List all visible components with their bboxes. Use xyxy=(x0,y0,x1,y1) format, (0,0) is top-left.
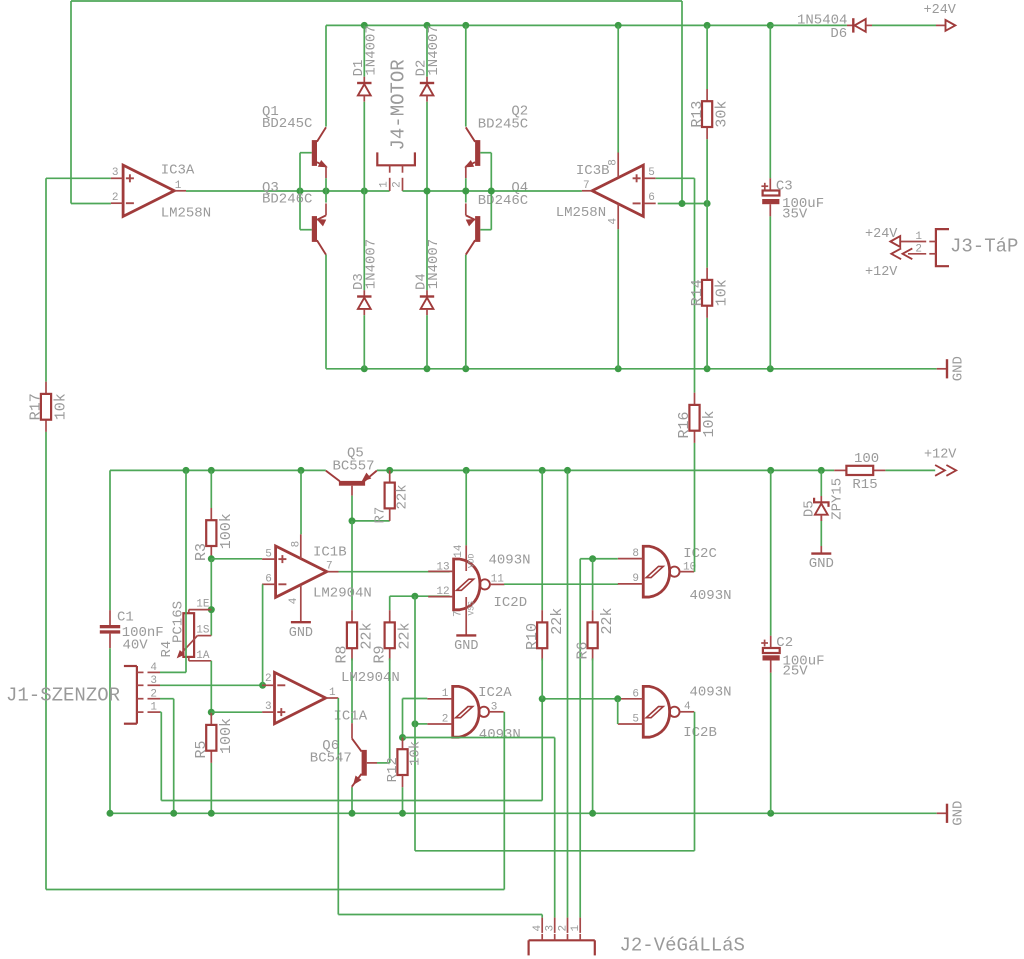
svg-text:1N4007: 1N4007 xyxy=(363,25,379,75)
svg-text:14: 14 xyxy=(453,544,465,558)
svg-text:1: 1 xyxy=(442,688,449,700)
resistor R10 22k xyxy=(541,470,543,610)
svg-text:4: 4 xyxy=(288,597,300,604)
svg-text:GND: GND xyxy=(454,639,478,654)
wire IC1B pin6 down to IC1A pin2 xyxy=(262,584,264,685)
svg-text:11: 11 xyxy=(491,574,505,586)
resistor R15 100 xyxy=(834,469,846,471)
wire R5 bottom to GND line xyxy=(210,763,212,813)
wire R6 top xyxy=(592,559,594,610)
diode D4 1N4007 xyxy=(426,290,428,296)
svg-text:7: 7 xyxy=(326,561,333,573)
svg-text:40V: 40V xyxy=(123,638,149,654)
svg-text:5: 5 xyxy=(265,548,272,560)
capacitor C2 100uF 25V xyxy=(770,470,772,635)
svg-text:22k: 22k xyxy=(396,622,413,649)
svg-text:J2-VéGáLLáS: J2-VéGáLLáS xyxy=(620,935,745,957)
svg-text:IC2A: IC2A xyxy=(478,685,512,701)
supply +12V arrow right xyxy=(946,465,956,476)
svg-text:3: 3 xyxy=(112,167,119,179)
wire D1 to output node to D3 xyxy=(363,102,365,291)
op-amp IC3B xyxy=(592,165,643,216)
nand gate IC2B 4093N xyxy=(643,686,669,737)
svg-text:4: 4 xyxy=(684,701,691,713)
transistor Q2 BD245C xyxy=(475,140,480,166)
svg-text:+12V: +12V xyxy=(865,265,898,280)
svg-text:6: 6 xyxy=(648,192,655,204)
connector J2-VeGaLLaS xyxy=(529,939,595,941)
svg-text:C1: C1 xyxy=(117,610,134,626)
resistor R5 100k xyxy=(210,713,212,725)
wire Q5 base node to R7 bottom xyxy=(352,520,390,522)
svg-text:5: 5 xyxy=(632,714,639,726)
wire IC2B output down xyxy=(694,712,696,851)
wire IC2D pin14 to rail xyxy=(465,470,467,545)
svg-text:PC16S: PC16S xyxy=(171,601,187,643)
resistor R16 10k xyxy=(694,393,696,405)
svg-text:10k: 10k xyxy=(701,410,718,437)
svg-text:10k: 10k xyxy=(53,393,70,420)
resistor R12 10k xyxy=(402,738,404,750)
wire Q1/Q3 base tie xyxy=(300,152,312,154)
supply +24V arrow top right xyxy=(936,24,946,26)
svg-text:IC2B: IC2B xyxy=(683,725,717,741)
wire IC2C output to R16 chain xyxy=(694,443,696,572)
svg-text:C3: C3 xyxy=(776,179,793,195)
connector J4-MOTOR xyxy=(377,152,415,165)
wire +12V rail right segment xyxy=(377,469,834,471)
nand gate IC2D 4093N xyxy=(454,559,480,610)
svg-text:4093N: 4093N xyxy=(479,727,521,743)
wire J1 pin1 to R10 net xyxy=(160,711,161,713)
svg-text:10k: 10k xyxy=(408,741,424,766)
svg-text:BD246C: BD246C xyxy=(262,192,312,208)
svg-text:J4-MOTOR: J4-MOTOR xyxy=(387,59,409,150)
wire J1 pin3 to IC1A pin2 xyxy=(160,684,262,686)
wire R12 bottom to GND xyxy=(402,787,404,813)
svg-text:GND: GND xyxy=(289,626,313,641)
svg-text:BD245C: BD245C xyxy=(262,116,312,132)
svg-text:100k: 100k xyxy=(218,718,235,754)
svg-text:R5: R5 xyxy=(193,740,210,758)
svg-text:GND: GND xyxy=(950,356,966,381)
diode D3 1N4007 xyxy=(363,290,365,296)
svg-text:BD245C: BD245C xyxy=(478,116,528,132)
svg-text:J1-SZENZOR: J1-SZENZOR xyxy=(6,684,120,706)
trimmer R4 PC16S xyxy=(183,613,194,657)
resistor R9 22k xyxy=(389,596,391,610)
svg-text:2: 2 xyxy=(915,244,922,256)
wire IC3B pin6 to R13/R14 junction xyxy=(658,203,707,205)
svg-text:LM258N: LM258N xyxy=(161,205,211,221)
wire GND bus bottom xyxy=(110,812,937,814)
svg-text:10k: 10k xyxy=(714,279,731,306)
svg-text:2: 2 xyxy=(442,713,449,725)
node R3 bottom / IC1B+ xyxy=(208,555,215,562)
svg-text:R17: R17 xyxy=(28,393,45,420)
wire H-bridge lower rail to GND xyxy=(326,368,937,370)
svg-text:35V: 35V xyxy=(782,206,808,222)
wire IC3A output rail to H-bridge xyxy=(186,190,390,192)
svg-text:+24V: +24V xyxy=(865,227,898,242)
wire J2 pin2 +12V xyxy=(567,470,569,917)
svg-text:2: 2 xyxy=(557,925,569,932)
wire R12 node to J2 pin3 xyxy=(403,737,555,739)
svg-text:R3: R3 xyxy=(193,543,210,561)
svg-text:+12V: +12V xyxy=(924,447,957,462)
svg-text:1: 1 xyxy=(915,231,922,243)
wire IC3B pin8 to +24V xyxy=(617,25,619,152)
svg-text:3: 3 xyxy=(491,701,498,713)
svg-text:4: 4 xyxy=(532,925,544,932)
svg-text:2: 2 xyxy=(265,673,272,685)
node R12 top xyxy=(399,734,406,741)
svg-text:R15: R15 xyxy=(852,477,877,493)
diode D2 1N4007 xyxy=(426,25,428,76)
supply +12V arrow at J3 pin2 xyxy=(891,248,901,259)
resistor R6 22k xyxy=(592,610,594,622)
svg-text:BD246C: BD246C xyxy=(478,193,528,209)
op-amp IC1A LM2904N xyxy=(275,672,326,723)
svg-text:1N4007: 1N4007 xyxy=(426,25,442,75)
svg-text:100: 100 xyxy=(854,451,879,467)
svg-text:4093N: 4093N xyxy=(690,684,732,700)
wire IC2B pin6 line xyxy=(542,698,618,700)
wire R3 node down to trimmer xyxy=(210,559,212,636)
transistor Q4 BD246C xyxy=(475,216,480,242)
resistor R13 30k xyxy=(706,25,708,89)
transistor Q1 BD245C xyxy=(312,140,317,166)
svg-text:IC3B: IC3B xyxy=(576,163,610,179)
svg-text:9: 9 xyxy=(632,573,639,585)
svg-text:2: 2 xyxy=(112,192,119,204)
wire R15 to +12V arrow xyxy=(884,469,886,471)
node junction dots on ref net xyxy=(679,200,686,207)
svg-text:4: 4 xyxy=(150,662,157,674)
svg-text:VSS: VSS xyxy=(468,601,477,616)
svg-text:4093N: 4093N xyxy=(690,588,732,604)
svg-text:GND: GND xyxy=(950,801,966,826)
svg-text:IC3A: IC3A xyxy=(161,163,195,179)
svg-text:GND: GND xyxy=(809,556,834,572)
svg-text:8: 8 xyxy=(632,548,639,560)
svg-text:D5: D5 xyxy=(801,500,817,517)
svg-text:BC557: BC557 xyxy=(333,458,375,474)
wire IC2C pin8 node xyxy=(580,558,618,560)
svg-text:3: 3 xyxy=(545,925,557,932)
resistor R3 100k xyxy=(210,470,212,508)
svg-text:22k: 22k xyxy=(395,484,411,509)
wire IC3B pin5 to R16 xyxy=(656,177,695,179)
svg-text:VDD: VDD xyxy=(468,553,477,568)
svg-text:R9: R9 xyxy=(371,645,388,663)
svg-text:1: 1 xyxy=(150,702,157,714)
svg-text:IC2D: IC2D xyxy=(494,595,528,611)
svg-text:1A: 1A xyxy=(196,650,210,662)
svg-text:LM2904N: LM2904N xyxy=(341,670,400,686)
capacitor C3 100uF 35V xyxy=(769,25,771,178)
wire IC1B out to IC2D pin13 xyxy=(339,571,450,573)
resistor R17 10k xyxy=(45,382,47,394)
svg-text:R10: R10 xyxy=(524,623,541,650)
svg-text:8: 8 xyxy=(607,159,619,166)
wire IC1A pin3 from R5 node xyxy=(211,711,262,713)
svg-text:12: 12 xyxy=(436,586,449,598)
wire R17 bottom to IC2A output xyxy=(45,432,47,890)
wire IC2D pin12 net down to IC2A pin2 and IC2B out xyxy=(414,596,416,724)
capacitor C1 100nF 40V xyxy=(109,470,111,610)
wire IC2D pin12 line from R9 xyxy=(390,595,450,597)
svg-text:13: 13 xyxy=(436,561,449,573)
resistor R7 22k xyxy=(389,470,391,482)
svg-text:2: 2 xyxy=(150,688,157,700)
op-amp IC3A xyxy=(123,165,174,216)
connector J1-SZENZOR xyxy=(124,665,137,667)
svg-text:2: 2 xyxy=(391,181,403,188)
svg-text:ZPY15: ZPY15 xyxy=(830,478,846,520)
wire IC1B pin8 to rail xyxy=(300,470,302,534)
wire R3 node to IC1B pin5 xyxy=(211,558,262,560)
svg-text:6: 6 xyxy=(265,574,272,586)
svg-text:1N4007: 1N4007 xyxy=(426,239,442,289)
resistor R14 10k xyxy=(706,204,708,268)
wire J1 pin4 to switched +12V xyxy=(160,671,186,673)
wire R9 bottom to Q6 base xyxy=(389,658,391,763)
wire IC2A pin1 to R12 node xyxy=(403,698,428,700)
wire +12V switched rail left segment xyxy=(110,469,326,471)
wire net IC3A- / IC3B- top loop xyxy=(71,0,682,2)
svg-text:IC1B: IC1B xyxy=(313,545,347,561)
svg-text:R6: R6 xyxy=(574,641,591,659)
wire +24V top rail xyxy=(326,24,770,26)
svg-text:R14: R14 xyxy=(689,279,706,306)
wire H-bridge right output rail xyxy=(403,190,582,192)
svg-text:1N4007: 1N4007 xyxy=(363,239,379,289)
svg-text:8: 8 xyxy=(290,541,302,548)
ground GND at IC2D pin7 xyxy=(456,634,476,636)
transistor Q3 BD246C xyxy=(312,216,317,242)
svg-text:25V: 25V xyxy=(783,663,809,679)
wire D2 to output node to D4 xyxy=(426,102,428,291)
nand gate IC2C 4093N xyxy=(643,546,669,597)
ground GND at IC1B pin4 xyxy=(291,621,311,623)
svg-text:C2: C2 xyxy=(776,635,793,651)
svg-text:22k: 22k xyxy=(599,607,616,634)
svg-text:1: 1 xyxy=(570,925,582,932)
wire R8 to Q6 collector xyxy=(351,658,353,723)
ground GND top right xyxy=(937,368,947,370)
svg-text:7: 7 xyxy=(583,180,590,192)
diode D5 ZPY15 zener xyxy=(820,470,822,496)
svg-text:IC2C: IC2C xyxy=(683,546,717,562)
svg-text:LM258N: LM258N xyxy=(556,205,606,221)
svg-text:1: 1 xyxy=(379,181,391,188)
svg-text:100k: 100k xyxy=(218,513,235,549)
ground GND bottom right xyxy=(937,812,947,814)
svg-text:7: 7 xyxy=(452,610,464,617)
svg-text:1: 1 xyxy=(175,180,182,192)
svg-text:R8: R8 xyxy=(334,645,351,663)
wire IC2B pin5 tie to pin6 xyxy=(617,699,619,724)
nand gate IC2A 4093N xyxy=(453,686,479,737)
svg-text:LM2904N: LM2904N xyxy=(313,586,372,602)
wire IC2C pin8 net to J2 pin1 xyxy=(579,559,581,918)
svg-text:30k: 30k xyxy=(714,101,731,128)
svg-text:3: 3 xyxy=(150,675,157,687)
svg-text:R12: R12 xyxy=(385,757,401,782)
svg-text:+24V: +24V xyxy=(924,3,957,18)
wire IC2A pin2 node xyxy=(415,723,427,725)
svg-text:5: 5 xyxy=(648,167,655,179)
wire IC2D pin11 to IC2C pin9 xyxy=(504,583,618,585)
svg-text:22k: 22k xyxy=(549,608,566,635)
diode D6 1N5404 xyxy=(770,24,847,26)
svg-text:4093N: 4093N xyxy=(489,553,531,569)
wire trimmer 1A to R5 top node xyxy=(210,661,212,712)
wire IC1A output to J2 pin4 xyxy=(337,698,339,915)
svg-text:22k: 22k xyxy=(359,622,376,649)
supply +24V arrow at J3 pin1 xyxy=(890,236,900,247)
connector J3-TaP xyxy=(936,229,949,266)
svg-text:R13: R13 xyxy=(689,101,706,128)
wire Q5 base to R8 xyxy=(351,521,353,610)
diode D1 1N4007 xyxy=(363,25,365,76)
svg-text:1E: 1E xyxy=(196,599,210,611)
svg-text:R7: R7 xyxy=(372,507,388,524)
op-amp IC1B LM2904N xyxy=(276,546,327,597)
svg-text:6: 6 xyxy=(632,688,639,700)
svg-text:J3-TáP: J3-TáP xyxy=(950,236,1018,258)
svg-text:3: 3 xyxy=(265,701,272,713)
svg-text:1S: 1S xyxy=(196,625,210,637)
wire R6 bottom to GND line xyxy=(592,658,594,813)
svg-text:R16: R16 xyxy=(676,411,693,438)
wire IC3B pin4 to lower rail xyxy=(617,229,619,368)
wire J1 pin2 to GND line xyxy=(160,698,174,700)
wire Q2/Q4 base tie xyxy=(480,152,491,154)
svg-text:4: 4 xyxy=(607,218,619,225)
svg-text:BC547: BC547 xyxy=(310,751,352,767)
resistor R8 22k xyxy=(351,610,353,622)
transistor Q5 BC557 xyxy=(339,481,365,486)
wire IC3A+ input from R17 xyxy=(46,177,111,179)
transistor Q6 BC547 xyxy=(362,750,367,776)
svg-text:1: 1 xyxy=(329,687,336,699)
svg-text:D6: D6 xyxy=(830,26,847,42)
